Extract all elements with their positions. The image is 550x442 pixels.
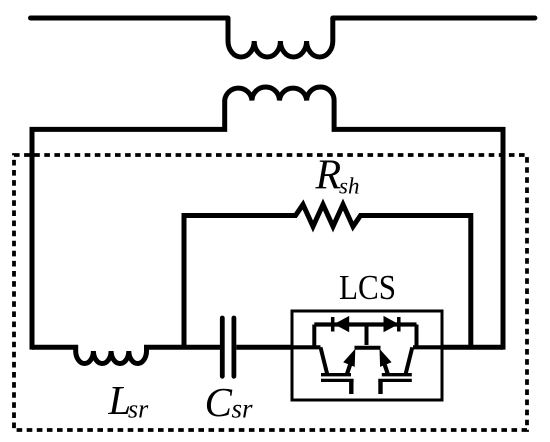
- svg-text:R: R: [315, 153, 342, 199]
- svg-text:sr: sr: [232, 394, 254, 424]
- svg-text:LCS: LCS: [339, 268, 396, 307]
- svg-text:sh: sh: [339, 174, 359, 199]
- svg-text:sr: sr: [128, 395, 149, 424]
- svg-text:C: C: [205, 379, 233, 425]
